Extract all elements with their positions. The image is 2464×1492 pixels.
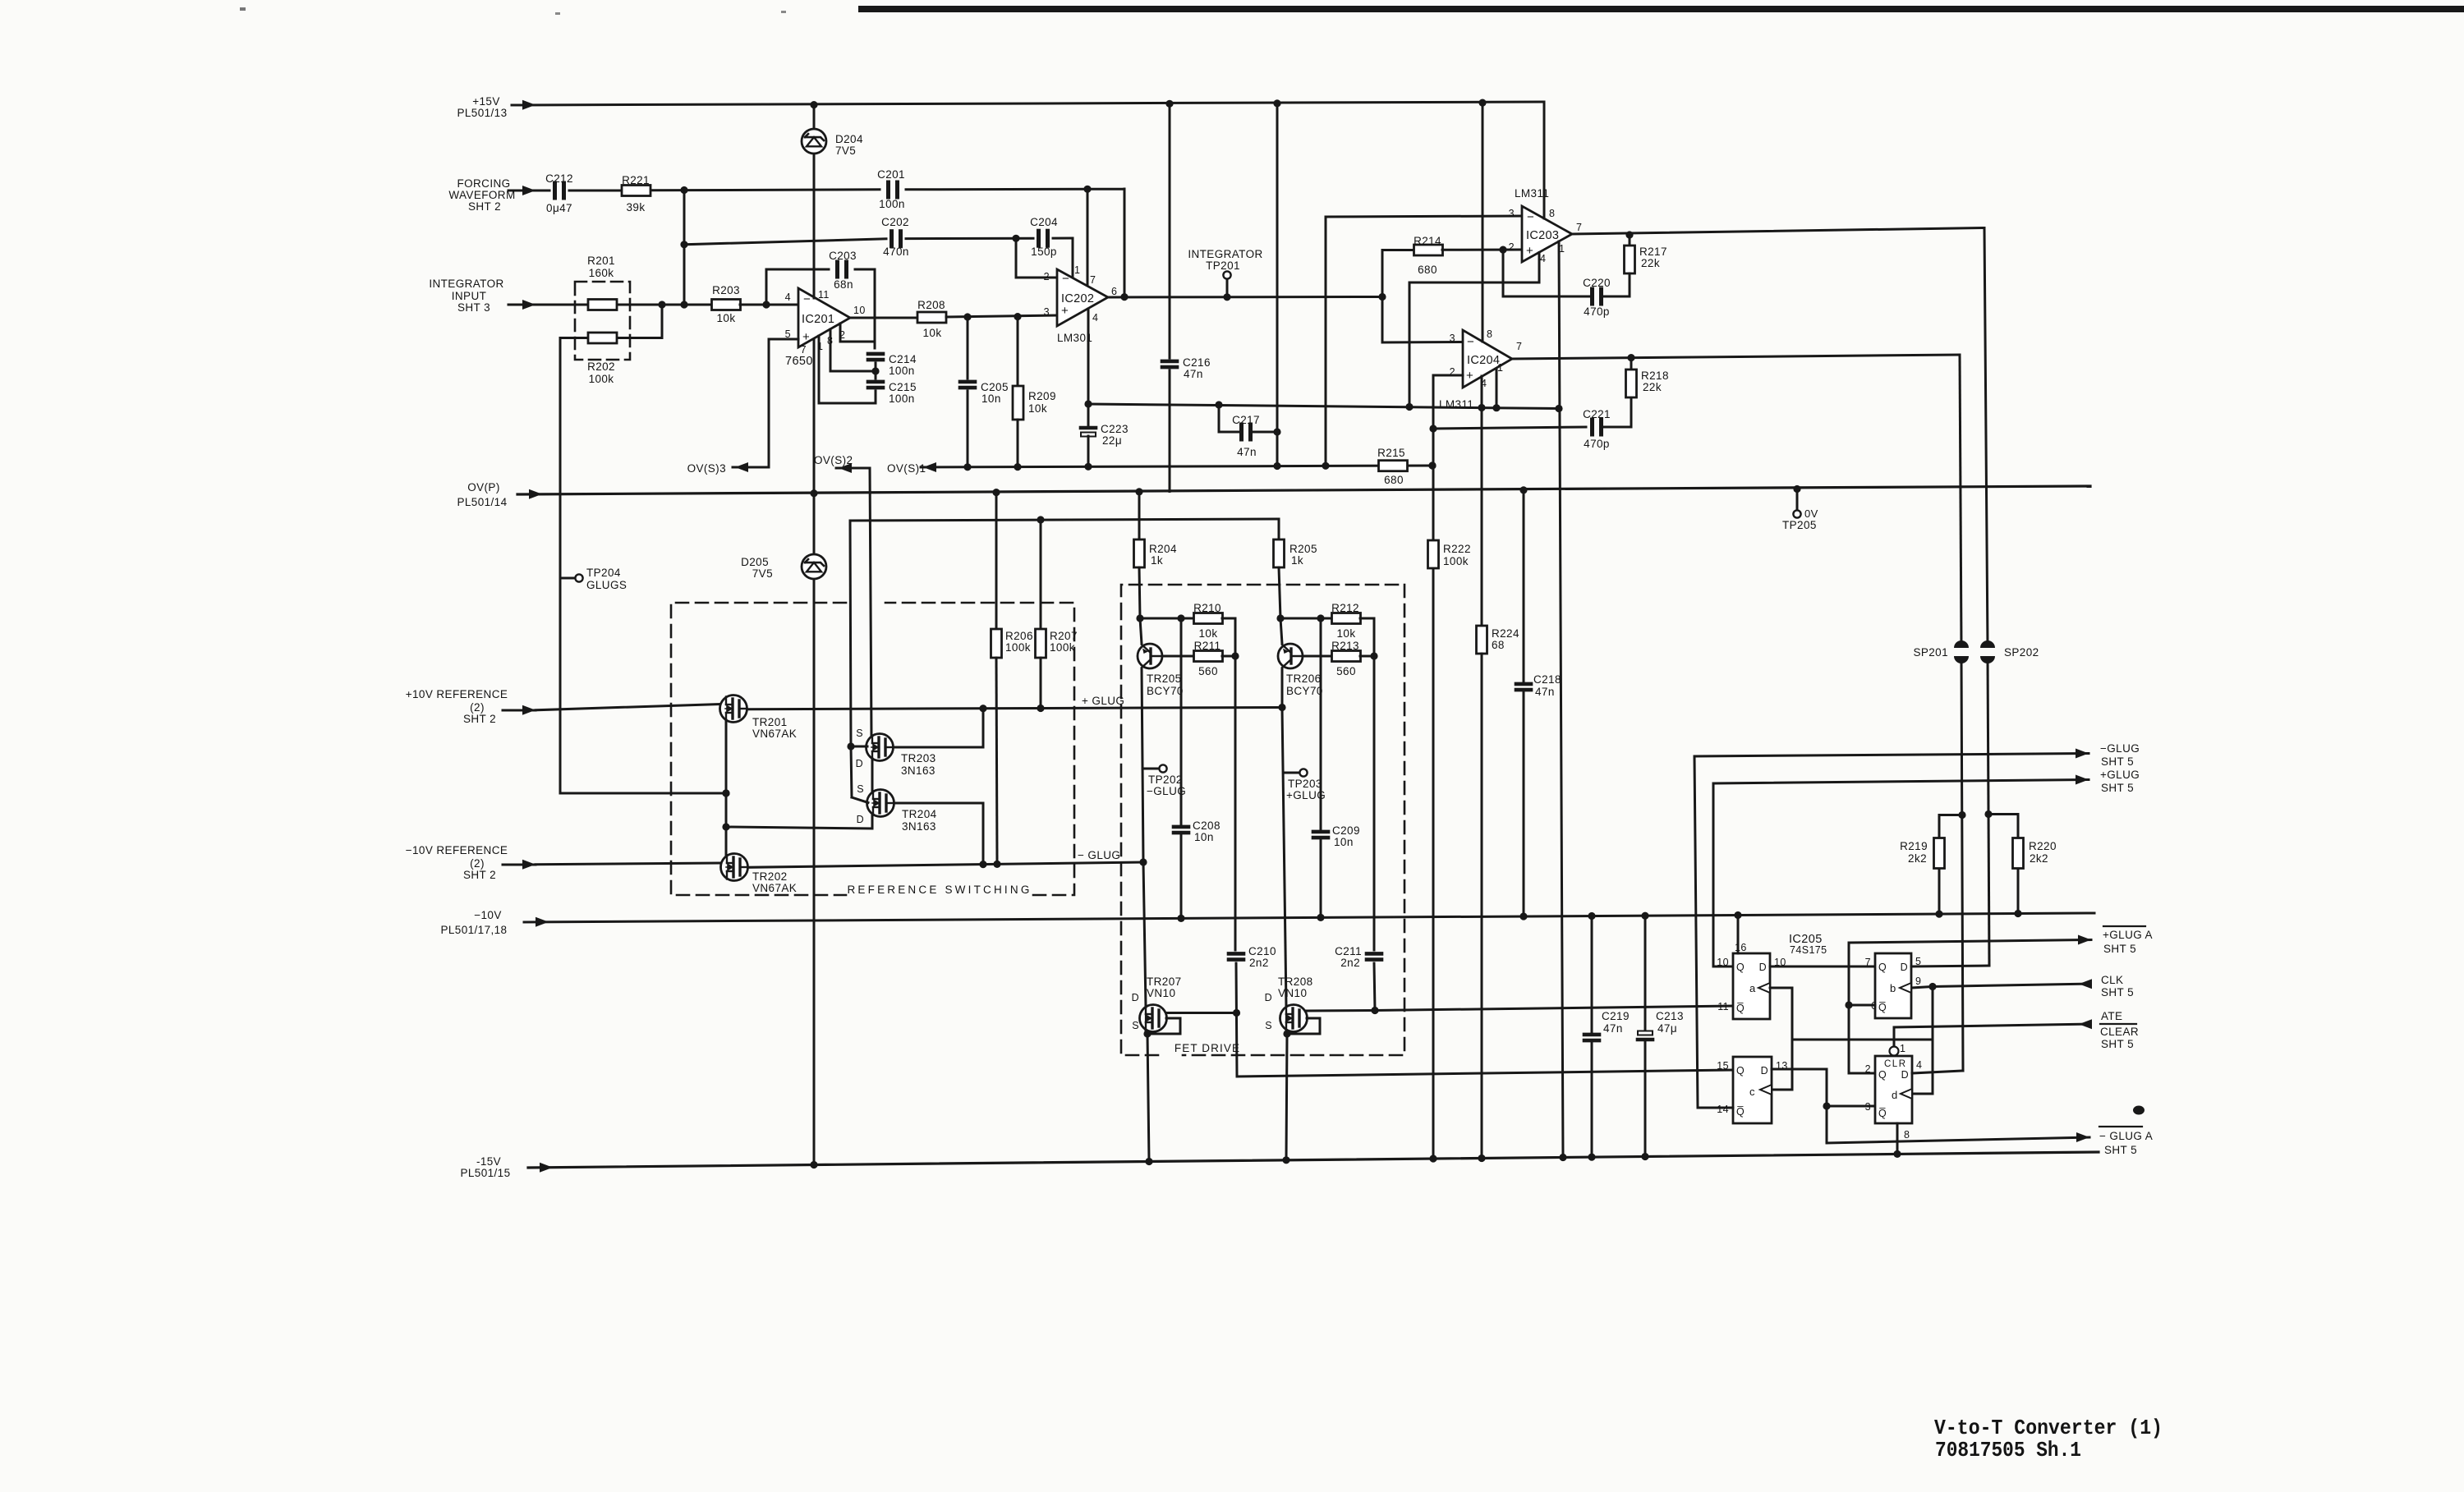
- svg-text:TP202: TP202: [1148, 774, 1183, 786]
- svg-text:TR206: TR206: [1286, 673, 1322, 685]
- svg-text:10k: 10k: [1337, 627, 1356, 640]
- wire C202 row: [680, 235, 1073, 277]
- svg-text:560: 560: [1198, 665, 1218, 677]
- svg-text:SHT 2: SHT 2: [463, 869, 496, 881]
- zener D205 7V5: [741, 554, 826, 580]
- svg-text:TR201: TR201: [752, 716, 788, 728]
- svg-text:+: +: [1061, 304, 1069, 318]
- capacitor C202: [881, 216, 909, 258]
- node -10V PL501/17,18 input label: [441, 909, 508, 936]
- svg-text:SHT 2: SHT 2: [463, 713, 496, 725]
- wire -15V rail: [528, 1150, 2099, 1173]
- wire -GLUG A SHT5 output: [1827, 1132, 2089, 1143]
- svg-text:C221: C221: [1583, 408, 1611, 420]
- wire R210/R211 junction column with C210: [1222, 618, 1240, 1077]
- svg-text:R210: R210: [1193, 602, 1221, 614]
- svg-text:100n: 100n: [879, 198, 905, 210]
- wire +GLUG SHT5 output: [1713, 769, 2140, 966]
- capacitor C217: [1219, 405, 1277, 458]
- transistor TR202 VN67AK: [721, 854, 798, 895]
- svg-text:−10V REFERENCE: −10V REFERENCE: [406, 844, 508, 856]
- svg-text:680: 680: [1418, 264, 1437, 276]
- svg-text:7: 7: [801, 344, 807, 356]
- svg-text:70817505 Sh.1: 70817505 Sh.1: [1935, 1438, 2081, 1462]
- wire IC203 output drop column (SP202 side): [1984, 228, 1993, 966]
- svg-text:TR207: TR207: [1147, 976, 1182, 988]
- svg-text:R217: R217: [1639, 246, 1667, 258]
- svg-text:SHT 5: SHT 5: [2101, 782, 2134, 794]
- svg-text:15: 15: [1717, 1060, 1729, 1072]
- svg-text:D: D: [1901, 1069, 1909, 1081]
- wire TR208 drain column: [1282, 708, 1286, 1008]
- svg-text:WAVEFORM: WAVEFORM: [448, 189, 515, 201]
- svg-text:D: D: [1265, 992, 1272, 1003]
- svg-text:68n: 68n: [834, 278, 853, 291]
- capacitor C208: [1174, 618, 1221, 918]
- wire integrator input line: [508, 300, 712, 310]
- svg-text:SHT 3: SHT 3: [457, 301, 490, 314]
- capacitor C209: [1313, 618, 1360, 917]
- capacitor C220: [1565, 277, 1630, 318]
- wire IC203 V+ pin8 from +15V: [1543, 102, 1546, 218]
- svg-text:1: 1: [1074, 264, 1080, 276]
- svg-text:C208: C208: [1193, 819, 1221, 832]
- capacitor C205: [960, 317, 1009, 466]
- svg-text:160k: 160k: [589, 267, 614, 279]
- svg-text:7V5: 7V5: [835, 145, 856, 157]
- resistor R209: [1013, 317, 1056, 466]
- wire IC204 pin4 stub: [1481, 376, 1483, 408]
- svg-text:C202: C202: [881, 216, 909, 228]
- svg-text:22k: 22k: [1641, 257, 1660, 269]
- svg-text:SHT 5: SHT 5: [2101, 755, 2134, 768]
- capacitor C210: [1229, 945, 1276, 969]
- wire IC205d gnd pin8: [1896, 1123, 1899, 1154]
- resistor R222: [1428, 540, 1471, 568]
- svg-text:Q: Q: [1736, 962, 1745, 973]
- svg-text:10k: 10k: [1199, 627, 1218, 640]
- wire IC204 output drop column (SP201 side): [1958, 355, 1965, 1071]
- svg-text:SHT 5: SHT 5: [2103, 943, 2136, 955]
- wire IC205b Q pin2-d link: [1849, 1005, 1875, 1073]
- wire IC203 pin4 link: [1409, 253, 1539, 407]
- svg-text:2: 2: [1509, 241, 1515, 253]
- svg-text:8: 8: [1487, 328, 1492, 340]
- node +15V PL501/13 input label: [457, 95, 507, 119]
- node -GLUG A SHT5 label: [2099, 1106, 2153, 1157]
- svg-text:(2): (2): [470, 857, 485, 870]
- svg-text:C210: C210: [1248, 945, 1276, 957]
- svg-text:7: 7: [1576, 222, 1582, 233]
- node INTEGRATOR INPUT SHT3 label: [429, 278, 503, 314]
- test point TP203: [1284, 769, 1326, 801]
- wire -GLUG SHT5 output: [1694, 742, 2140, 1108]
- svg-text:VN10: VN10: [1278, 987, 1307, 999]
- wire IC201 output to R208: [850, 317, 919, 319]
- comparator IC204 (LM311): [1439, 328, 1522, 411]
- svg-text:22μ: 22μ: [1102, 434, 1122, 447]
- wire TR204 drain row: [726, 827, 872, 829]
- wire IC201 feedback top rail: [766, 269, 875, 342]
- test point TP205: [1782, 489, 1818, 532]
- svg-text:100n: 100n: [889, 365, 915, 377]
- svg-text:−: −: [1062, 272, 1069, 286]
- wire IC205a D-out to IC205b: [1770, 966, 1875, 968]
- svg-text:VN10: VN10: [1147, 987, 1175, 999]
- wire TR201 gate column to TR202: [722, 720, 729, 855]
- wire row A : gate net to IC205 a pin 11: [1375, 1006, 1733, 1011]
- resistor R220: [1988, 815, 2057, 914]
- svg-text:−10V: −10V: [474, 909, 502, 921]
- svg-text:Q: Q: [1878, 962, 1887, 973]
- wire R202 left to GLUGS line: [560, 338, 730, 797]
- wire IC205b D pin5 from IC203 column: [1911, 966, 1989, 966]
- resistor R212: [1331, 602, 1360, 640]
- svg-text:SHT 5: SHT 5: [2104, 1144, 2137, 1156]
- wire IC201 pin2 to C214: [840, 324, 875, 348]
- svg-text:10: 10: [853, 305, 866, 316]
- svg-text:7650: 7650: [785, 355, 813, 368]
- svg-text:10k: 10k: [717, 312, 736, 324]
- svg-text:b: b: [1890, 982, 1896, 994]
- svg-text:GLUGS: GLUGS: [586, 579, 627, 591]
- resistor R205: [1274, 539, 1317, 618]
- svg-text:100k: 100k: [589, 373, 614, 385]
- svg-text:FET DRIVE: FET DRIVE: [1175, 1042, 1240, 1054]
- svg-text:68: 68: [1492, 639, 1505, 651]
- svg-text:TR204: TR204: [902, 808, 937, 820]
- wire 0V(P) rail: [517, 485, 2090, 499]
- wire TR203/TR204 source-drain chain: [871, 759, 874, 829]
- wire IC204 +input column (R215/R222 net): [1428, 375, 1463, 1159]
- svg-text:8: 8: [1549, 208, 1555, 219]
- svg-text:+: +: [802, 330, 810, 344]
- dashed box FET DRIVE: [1121, 585, 1404, 1055]
- svg-text:39k: 39k: [627, 201, 646, 213]
- wire IC203 -input row: [1326, 216, 1522, 466]
- svg-text:(2): (2): [470, 701, 485, 714]
- capacitor C223 22u: [1081, 404, 1129, 466]
- wire OV(S)1 row: [921, 461, 1437, 472]
- node +10V REFERENCE input: [406, 688, 719, 725]
- wire C221 row: [1433, 427, 1586, 429]
- svg-text:− GLUG: − GLUG: [1078, 849, 1120, 861]
- resistor R201: [587, 255, 617, 310]
- svg-text:CLK: CLK: [2101, 974, 2123, 986]
- svg-text:8: 8: [1904, 1129, 1910, 1141]
- svg-text:SP202: SP202: [2004, 646, 2039, 659]
- wire IC202 pin4 stub: [1087, 309, 1090, 404]
- resistor R219: [1900, 815, 1962, 915]
- svg-text:CLR: CLR: [1884, 1059, 1907, 1069]
- node OV(P) PL501/14 input label: [457, 481, 507, 508]
- capacitor C212: [545, 172, 573, 214]
- svg-text:− GLUG A: − GLUG A: [2099, 1130, 2153, 1142]
- svg-text:47μ: 47μ: [1657, 1022, 1677, 1035]
- svg-text:4: 4: [785, 292, 791, 303]
- svg-text:Q: Q: [1736, 1065, 1745, 1077]
- svg-text:R224: R224: [1492, 627, 1519, 640]
- op-amp IC202 (LM301): [1044, 264, 1118, 344]
- capacitor C201: [877, 168, 905, 210]
- wire IC205c D from IC205d Qbar: [1772, 1069, 1875, 1143]
- wire IC204 V+ pin8 from +15V: [1482, 103, 1484, 342]
- svg-text:SHT 5: SHT 5: [2101, 986, 2134, 998]
- wire IC201 pin7 / D205 column to -15V: [813, 339, 816, 1165]
- wire TR206 emitter to +GLUG: [1281, 668, 1284, 708]
- svg-text:a: a: [1749, 982, 1756, 994]
- wire TR203 bulk to +GLUG: [894, 709, 983, 747]
- svg-text:3N163: 3N163: [902, 820, 936, 833]
- svg-text:11: 11: [818, 289, 830, 301]
- flip-flop IC205c: [1717, 1057, 1787, 1123]
- capacitor C213 47u: [1638, 916, 1684, 1156]
- svg-text:14: 14: [1717, 1104, 1729, 1115]
- capacitor C203: [829, 250, 857, 291]
- svg-text:VN67AK: VN67AK: [752, 882, 797, 894]
- svg-text:BCY70: BCY70: [1147, 685, 1184, 697]
- svg-text:4: 4: [1540, 253, 1546, 264]
- capacitor C216: [1162, 103, 1211, 492]
- svg-text:+15V: +15V: [472, 95, 500, 108]
- resistor R208: [917, 299, 946, 339]
- svg-text:74S175: 74S175: [1790, 944, 1827, 956]
- wire IC202 output row: [1108, 293, 1386, 301]
- svg-text:3: 3: [1509, 208, 1515, 219]
- svg-text:10k: 10k: [1028, 402, 1047, 415]
- resistor R214: [1382, 235, 1522, 297]
- resistor R213: [1331, 640, 1360, 677]
- svg-text:R206: R206: [1005, 630, 1033, 642]
- svg-text:TP201: TP201: [1206, 259, 1240, 272]
- svg-text:R201: R201: [587, 255, 615, 267]
- svg-text:C217: C217: [1232, 414, 1260, 426]
- svg-text:C216: C216: [1183, 356, 1211, 369]
- wire TR205 collector/base links: [1136, 614, 1194, 656]
- node -10V REFERENCE input: [406, 844, 720, 881]
- wire IC201 V+ pin11 from +15V: [813, 105, 816, 298]
- svg-text:0μ47: 0μ47: [546, 202, 572, 214]
- svg-text:−GLUG: −GLUG: [2100, 742, 2140, 755]
- svg-text:BCY70: BCY70: [1286, 685, 1323, 697]
- svg-text:INTEGRATOR: INTEGRATOR: [429, 278, 503, 290]
- wire R203 to IC201 inverting input: [740, 301, 798, 308]
- capacitor C218: [1516, 490, 1561, 916]
- wire R224 column: [1481, 408, 1483, 627]
- svg-text:R211: R211: [1194, 640, 1221, 652]
- wire -10V rail: [524, 910, 2094, 927]
- svg-text:C220: C220: [1583, 277, 1611, 289]
- capacitor C215: [868, 381, 917, 405]
- wire IC204 output row: [1512, 354, 1960, 361]
- svg-text:TR203: TR203: [901, 752, 936, 764]
- svg-text:+: +: [1466, 369, 1473, 383]
- wire FET gate drive row 634: [850, 516, 1279, 523]
- svg-text:R207: R207: [1050, 630, 1078, 642]
- spark gap SP202: [1980, 640, 2039, 663]
- wire TR208 gate lead into row A: [1307, 1009, 1375, 1012]
- test point TP202: [1142, 764, 1186, 797]
- dashed select box around R201/R202: [575, 282, 630, 360]
- node OV(S)2: [814, 454, 870, 473]
- resistor R206: [991, 493, 1033, 865]
- svg-text:PL501/13: PL501/13: [457, 107, 507, 119]
- wire IC205b Q6 lid to +GLUG A output: [1845, 935, 2091, 1009]
- svg-text:R213: R213: [1331, 640, 1359, 652]
- svg-text:11: 11: [1717, 1001, 1729, 1012]
- wire IC202 pin7 stub: [1087, 189, 1089, 287]
- flip-flop IC205d: [1865, 1043, 1923, 1141]
- wire R212/R213 junction column with C211: [1360, 618, 1379, 1014]
- svg-text:C211: C211: [1335, 945, 1362, 957]
- svg-text:V-to-T Converter (1): V-to-T Converter (1): [1934, 1416, 2163, 1440]
- svg-text:S: S: [856, 728, 863, 739]
- svg-text:+GLUG: +GLUG: [2100, 769, 2140, 781]
- resistor R224: [1477, 626, 1519, 1159]
- svg-text:C215: C215: [889, 381, 917, 393]
- transistor TR206 BCY70: [1278, 644, 1323, 697]
- title text: [1934, 1416, 2163, 1462]
- svg-text:R202: R202: [587, 360, 615, 373]
- resistor R211: [1194, 640, 1223, 677]
- wire +15V decoupling column: [1273, 103, 1280, 466]
- svg-text:100n: 100n: [889, 393, 915, 405]
- svg-text:C204: C204: [1030, 216, 1058, 228]
- op-amp IC201 (7650): [785, 288, 866, 368]
- svg-text:+10V REFERENCE: +10V REFERENCE: [406, 688, 508, 700]
- IC IC205 74S175 label: [1789, 933, 1827, 956]
- svg-text:2k2: 2k2: [2030, 852, 2048, 865]
- wire IC205d D pin4 from IC204 column: [1912, 1071, 1963, 1073]
- svg-text:TR208: TR208: [1278, 976, 1313, 988]
- wire TR208 source and bulk to -15V: [1283, 1018, 1320, 1160]
- svg-text:1: 1: [1900, 1043, 1905, 1054]
- svg-text:Q̅: Q̅: [1878, 1108, 1887, 1119]
- svg-text:6: 6: [1111, 286, 1117, 297]
- spark gap SP201: [1913, 640, 1969, 663]
- svg-text:470n: 470n: [883, 246, 909, 258]
- svg-text:100k: 100k: [1050, 641, 1075, 654]
- wire IC201 pin1 bottom loop: [819, 336, 876, 403]
- wire V- row (pin 4 net): [1084, 400, 1562, 412]
- svg-text:C203: C203: [829, 250, 857, 262]
- capacitor C214: [868, 353, 917, 377]
- svg-text:10: 10: [1717, 957, 1729, 968]
- svg-text:INPUT: INPUT: [452, 290, 487, 302]
- wire IC205a Vcc pin16: [1737, 916, 1740, 954]
- svg-text:TR205: TR205: [1147, 673, 1182, 685]
- node FORCING WAVEFORM SHT2 label: [448, 177, 515, 213]
- transistor TR207 VN10: [1132, 976, 1182, 1032]
- svg-text:47n: 47n: [1535, 686, 1555, 698]
- svg-text:100k: 100k: [1005, 641, 1031, 654]
- wire TR206 collector/base links: [1276, 614, 1332, 656]
- svg-text:c: c: [1749, 1086, 1755, 1098]
- wire TR207 source and bulk to -15V: [1143, 1018, 1180, 1162]
- svg-text:7: 7: [1865, 957, 1871, 968]
- svg-text:D: D: [1759, 962, 1767, 973]
- flip-flop IC205b: [1865, 953, 1922, 1018]
- svg-text:R220: R220: [2029, 840, 2057, 852]
- svg-text:C214: C214: [889, 353, 917, 365]
- svg-text:−: −: [1467, 335, 1474, 349]
- svg-text:CLEAR: CLEAR: [2100, 1026, 2139, 1038]
- capacitor C204: [1030, 216, 1058, 258]
- svg-text:TR202: TR202: [752, 870, 788, 883]
- resistor R218: [1626, 358, 1669, 397]
- svg-text:3: 3: [1044, 306, 1050, 318]
- resistor R215: [1377, 447, 1407, 486]
- wire IC205 clock net: [1770, 983, 1937, 1094]
- svg-text:OV(S)1: OV(S)1: [887, 462, 926, 475]
- svg-text:4: 4: [1916, 1059, 1922, 1071]
- svg-text:Q̅: Q̅: [1878, 1002, 1887, 1013]
- svg-text:ATE: ATE: [2101, 1010, 2122, 1022]
- svg-text:680: 680: [1384, 474, 1404, 486]
- svg-text:PL501/15: PL501/15: [460, 1167, 510, 1179]
- capacitor C211: [1335, 945, 1381, 969]
- wire C201 output drop to IC202 output: [1120, 189, 1128, 301]
- wire ATE/CLEAR input line: [1894, 1010, 2139, 1050]
- svg-text:OV(P): OV(P): [467, 481, 500, 494]
- svg-text:C218: C218: [1533, 673, 1561, 686]
- svg-text:−: −: [803, 292, 811, 306]
- comparator IC203 (LM311): [1509, 187, 1583, 264]
- node -15V PL501/15 input label: [460, 1155, 510, 1179]
- svg-text:0V: 0V: [1804, 507, 1818, 520]
- svg-text:Q: Q: [1878, 1069, 1887, 1081]
- wire IC202 pin2 jog: [1016, 238, 1057, 278]
- svg-text:7: 7: [1090, 274, 1096, 286]
- transistor TR204 3N163: [857, 783, 937, 833]
- test point TP204: [560, 567, 627, 591]
- capacitor C219: [1584, 916, 1630, 1158]
- wire IC204 -input row: [1382, 297, 1463, 343]
- svg-text:INTEGRATOR: INTEGRATOR: [1188, 248, 1262, 260]
- svg-text:R208: R208: [917, 299, 945, 311]
- svg-text:3N163: 3N163: [901, 764, 935, 777]
- svg-text:Q̅: Q̅: [1736, 1106, 1745, 1118]
- wire R202 parallel link: [618, 305, 662, 338]
- resistor R204: [1134, 492, 1177, 618]
- svg-text:IC201: IC201: [802, 313, 834, 326]
- svg-text:7V5: 7V5: [752, 567, 773, 580]
- transistor TR201 VN67AK: [720, 696, 798, 741]
- svg-text:LM311: LM311: [1439, 398, 1473, 411]
- svg-text:TP204: TP204: [586, 567, 621, 579]
- svg-text:470p: 470p: [1584, 305, 1610, 318]
- wire OV(S)2 to TR203 source: [870, 468, 871, 737]
- wire R208 to IC202 +input: [946, 313, 1057, 321]
- resistor R210: [1193, 602, 1222, 640]
- wire IC203 output row: [1572, 228, 1984, 239]
- svg-text:R204: R204: [1149, 543, 1177, 555]
- wire -GLUG row (left): [748, 849, 1147, 868]
- svg-text:R212: R212: [1331, 602, 1359, 614]
- test point TP201: [1188, 248, 1262, 296]
- svg-text:10k: 10k: [923, 327, 942, 339]
- scan edge bar (top): [240, 6, 2464, 15]
- wire TR207 drain from -GLUG: [1143, 862, 1146, 1007]
- svg-text:47n: 47n: [1237, 446, 1257, 458]
- svg-text:SHT 2: SHT 2: [468, 200, 501, 213]
- svg-text:SHT 5: SHT 5: [2101, 1038, 2134, 1050]
- wire TR207 gate lead: [1166, 1012, 1237, 1014]
- svg-text:1k: 1k: [1291, 554, 1303, 567]
- svg-text:REFERENCE SWITCHING: REFERENCE SWITCHING: [847, 884, 1032, 896]
- svg-text:R222: R222: [1443, 543, 1471, 555]
- svg-text:TP203: TP203: [1288, 778, 1322, 790]
